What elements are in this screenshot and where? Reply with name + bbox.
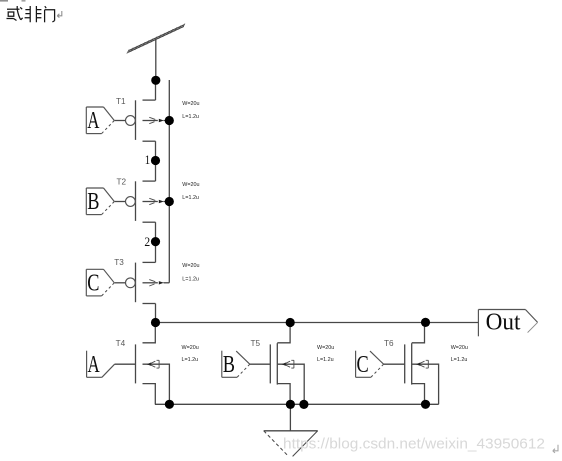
paragraph return mark after title bbox=[57, 11, 62, 18]
svg-text:A: A bbox=[88, 352, 101, 378]
node OUT left junction bbox=[151, 318, 160, 327]
svg-text:L=1.2u: L=1.2u bbox=[182, 195, 199, 201]
svg-text:T4: T4 bbox=[116, 339, 126, 348]
svg-text:L=1.2u: L=1.2u bbox=[182, 114, 199, 120]
svg-text:2: 2 bbox=[144, 234, 150, 249]
page margin mark 2 bbox=[22, 0, 26, 2]
svg-text:W=20u: W=20u bbox=[182, 263, 199, 269]
port flag Out (output) bbox=[478, 310, 537, 337]
svg-text:T5: T5 bbox=[251, 339, 261, 348]
svg-text:W=20u: W=20u bbox=[317, 345, 334, 351]
svg-text:Out: Out bbox=[486, 310, 521, 336]
wire output net rail bbox=[156, 322, 479, 324]
svg-text:T6: T6 bbox=[384, 339, 394, 348]
svg-text:T1: T1 bbox=[116, 97, 126, 106]
ground node T5 bulk bbox=[299, 400, 308, 409]
port flag B (input B, T2) bbox=[86, 188, 114, 215]
node 2 junction bbox=[151, 237, 160, 246]
svg-text:A: A bbox=[87, 108, 100, 134]
transistor T5 (NMOS) bbox=[270, 323, 304, 405]
page margin mark top-left bbox=[0, 0, 8, 2]
transistor T6 (NMOS) bbox=[405, 323, 439, 405]
svg-text:W=20u: W=20u bbox=[182, 182, 199, 188]
node T2 bulk junction bbox=[165, 197, 174, 206]
node 1 junction bbox=[151, 156, 160, 165]
wire PMOS bulk rail bbox=[168, 80, 170, 283]
transistor T3 (PMOS) bbox=[115, 262, 170, 303]
node OUT T5 junction bbox=[286, 318, 295, 327]
svg-text:W=20u: W=20u bbox=[182, 101, 199, 107]
svg-text:B: B bbox=[223, 352, 235, 378]
wire B (input B, T5) gate lead bbox=[250, 363, 270, 365]
svg-text:1: 1 bbox=[145, 152, 150, 167]
ground node T6 source bbox=[421, 400, 430, 409]
svg-text:L=1.2u: L=1.2u bbox=[182, 357, 199, 363]
ground node T5 source bbox=[286, 400, 295, 409]
wire T3 source to output node bbox=[155, 304, 157, 323]
transistor T2 (PMOS) bbox=[115, 181, 170, 222]
transistor T4 (NMOS) bbox=[136, 323, 170, 405]
port flag C (input C, T6) bbox=[356, 351, 384, 378]
wire A (input A, T4) gate lead bbox=[115, 363, 136, 365]
svg-text:https://blog.csdn.net/weixin_4: https://blog.csdn.net/weixin_43950612 bbox=[283, 437, 545, 453]
port flag C (input C, T3) bbox=[86, 269, 114, 296]
svg-text:L=1.2u: L=1.2u bbox=[182, 277, 199, 283]
port flag A (input A, T1) bbox=[86, 107, 114, 134]
svg-text:W=20u: W=20u bbox=[182, 345, 199, 351]
svg-text:C: C bbox=[357, 352, 369, 378]
power rail VDD (hatched bar) bbox=[127, 24, 185, 54]
ground symbol bbox=[264, 431, 318, 457]
wire ground net rail bbox=[155, 403, 439, 405]
wire VDD to top node bbox=[155, 39, 157, 80]
node T1 bulk junction bbox=[165, 116, 174, 125]
transistor T1 (PMOS) bbox=[115, 100, 170, 141]
node VDD junction bbox=[151, 76, 160, 85]
wire T1 drain to VDD node bbox=[155, 80, 157, 100]
wire C (input C, T6) gate lead bbox=[384, 363, 405, 365]
node OUT T6 junction bbox=[421, 318, 430, 327]
svg-text:C: C bbox=[87, 270, 99, 296]
svg-text:B: B bbox=[87, 189, 99, 215]
watermark return mark bbox=[553, 445, 558, 453]
wire T2 source to node 2 bbox=[155, 222, 157, 241]
port flag B (input B, T5) bbox=[222, 351, 250, 378]
title text 或非门 (NOR gate) bbox=[7, 6, 55, 22]
ground node T4 bulk bbox=[165, 400, 174, 409]
svg-text:L=1.2u: L=1.2u bbox=[317, 357, 334, 363]
svg-text:L=1.2u: L=1.2u bbox=[451, 357, 468, 363]
wire node 2 to T3 drain bbox=[155, 242, 157, 263]
port flag A (input A, T4) bbox=[87, 351, 115, 378]
wire T1 source to node 1 bbox=[155, 141, 157, 160]
wire node 1 to T2 drain bbox=[155, 161, 157, 182]
svg-text:T3: T3 bbox=[114, 258, 124, 267]
wire to ground bbox=[289, 404, 291, 430]
svg-text:T2: T2 bbox=[117, 178, 127, 187]
svg-text:W=20u: W=20u bbox=[451, 345, 468, 351]
